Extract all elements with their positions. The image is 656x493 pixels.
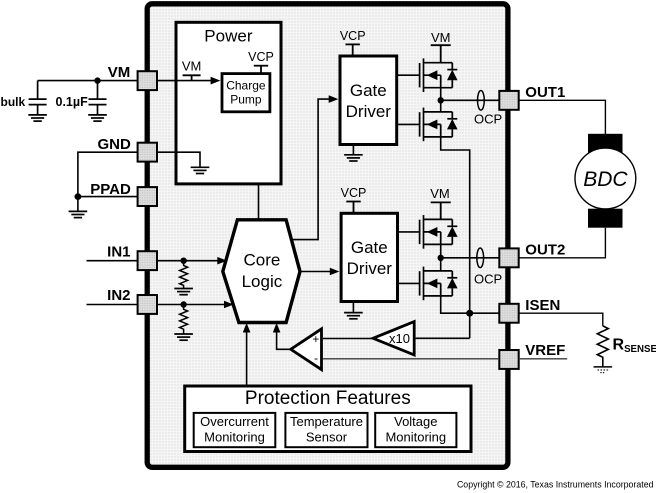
svg-text:BDC: BDC xyxy=(583,168,628,191)
wire VM pin to charge pump xyxy=(157,80,218,82)
transistor Q3 high-side xyxy=(420,215,458,249)
gate driver U2 xyxy=(340,56,397,145)
pin ISEN xyxy=(499,304,518,323)
pin OUT2 xyxy=(499,248,518,267)
arrow protection into core logic xyxy=(243,323,251,333)
arrow comparator into core logic xyxy=(273,323,281,333)
transistor Q4 low-side xyxy=(420,267,458,301)
wire ISEN pin to Rsense xyxy=(519,313,603,326)
ground below bulk xyxy=(28,115,47,121)
svg-text:-: - xyxy=(314,353,318,365)
arrow into gate driver U3 xyxy=(330,268,340,276)
wire core logic to gate driver U2 xyxy=(290,99,336,240)
supply VM over transistor Q3 xyxy=(431,202,451,219)
svg-text:RSENSE: RSENSE xyxy=(613,336,656,355)
svg-text:Temperature: Temperature xyxy=(290,414,363,429)
power block xyxy=(176,22,281,184)
wire IN2 pin to core logic xyxy=(157,304,231,306)
resistor pulldown IN1 xyxy=(180,261,188,289)
svg-text:IN2: IN2 xyxy=(107,287,130,304)
node ISEN junction xyxy=(466,310,473,317)
svg-text:Protection Features: Protection Features xyxy=(245,388,411,409)
transistor Q2 low-side xyxy=(420,108,458,142)
svg-text:Driver: Driver xyxy=(346,102,392,121)
charge pump xyxy=(222,74,270,112)
overcurrent monitoring block xyxy=(194,413,276,447)
svg-text:Core: Core xyxy=(243,251,280,270)
svg-text:Monitoring: Monitoring xyxy=(204,430,265,445)
supply VCP over charge pump xyxy=(254,66,268,74)
voltage monitoring block xyxy=(375,413,456,447)
svg-text:Gate: Gate xyxy=(350,81,387,100)
svg-text:VCP: VCP xyxy=(248,50,274,64)
wire PPAD pin external xyxy=(78,196,138,198)
svg-text:VM: VM xyxy=(182,58,202,73)
wire OUT2 node to pin xyxy=(441,257,500,259)
node PPAD junction xyxy=(75,193,82,200)
svg-text:GND: GND xyxy=(97,136,131,153)
temperature sensor block xyxy=(285,413,367,447)
svg-text:VM: VM xyxy=(430,186,450,201)
wire Q3 source to Q4 drain OUT2 node xyxy=(440,244,442,271)
transistor Q1 high-side xyxy=(420,58,458,92)
pin PPAD xyxy=(138,187,157,206)
motor BDC top terminal xyxy=(588,134,623,153)
supply VCP over gate driver U2 xyxy=(346,44,360,56)
node IN1 junction xyxy=(180,258,186,264)
wire OUT1 pin to motor xyxy=(519,100,606,134)
wire sense rail to x10 input xyxy=(416,337,470,339)
wire motor to OUT2 pin xyxy=(519,228,606,258)
wire VM external xyxy=(38,80,138,82)
wire power block to core logic xyxy=(258,184,260,220)
svg-text:0.1µF: 0.1µF xyxy=(56,95,89,109)
wire VREF to comparator minus xyxy=(323,358,499,360)
wire IN1 external xyxy=(87,260,138,262)
OCP sense ellipse OUT1 xyxy=(478,91,485,111)
wire gate U2 to Q1 xyxy=(398,74,420,76)
node VM junction xyxy=(94,77,100,83)
svg-text:bulk: bulk xyxy=(1,95,26,109)
motor BDC bottom terminal xyxy=(588,209,623,228)
wire Q4 source to ISEN xyxy=(441,296,500,313)
ground below gate driver U3 xyxy=(344,302,363,319)
wire GND pin external xyxy=(78,152,138,196)
wire Q2 source to sense rail xyxy=(441,137,470,338)
pin IN1 xyxy=(138,251,157,270)
svg-text:Charge: Charge xyxy=(226,78,266,92)
wire core logic to gate driver U3 xyxy=(300,271,337,273)
ground internal GND xyxy=(191,167,210,173)
OCP sense ellipse OUT2 xyxy=(477,248,484,268)
supply VM over transistor Q1 xyxy=(431,45,451,63)
svg-text:IN1: IN1 xyxy=(107,244,130,261)
wire IN1 pin to core logic xyxy=(157,260,224,262)
svg-text:Logic: Logic xyxy=(242,272,283,291)
ground below gate driver U2 xyxy=(344,145,363,162)
amplifier x10 xyxy=(373,322,414,355)
IC body U1 xyxy=(147,4,508,468)
gate driver U3 xyxy=(341,213,397,301)
pin VM xyxy=(138,71,157,90)
arrow into charge pump xyxy=(211,77,221,85)
supply VCP over gate driver U3 xyxy=(346,202,360,214)
node OUT1 junction xyxy=(438,97,444,103)
wire comparator output to core logic xyxy=(277,325,291,349)
svg-text:+: + xyxy=(312,334,319,346)
wire gate U3 to Q4 xyxy=(398,282,420,284)
resistor pulldown IN2 xyxy=(180,305,188,335)
svg-text:OCP: OCP xyxy=(474,112,502,127)
arrow IN1 into core logic xyxy=(217,257,227,265)
wire Q1 source to Q2 drain OUT1 node xyxy=(440,88,442,112)
svg-text:ISEN: ISEN xyxy=(525,297,560,314)
supply VM tap in power block xyxy=(183,75,201,80)
wire gate U2 to Q2 xyxy=(398,123,420,125)
svg-text:OUT1: OUT1 xyxy=(525,84,565,101)
svg-text:VM: VM xyxy=(431,30,451,45)
arrow IN2 into core logic xyxy=(224,301,234,309)
pin VREF xyxy=(499,350,518,369)
svg-text:VREF: VREF xyxy=(525,342,565,359)
motor BDC body xyxy=(575,148,636,209)
svg-text:Power: Power xyxy=(204,26,253,45)
node IN2 junction xyxy=(180,301,186,307)
pin OUT1 xyxy=(499,91,518,110)
svg-text:OUT2: OUT2 xyxy=(525,242,565,259)
svg-text:PPAD: PPAD xyxy=(90,181,131,198)
svg-text:OCP: OCP xyxy=(474,271,502,286)
wire IN2 external xyxy=(87,304,138,306)
capacitor bulk xyxy=(29,81,47,115)
core logic block xyxy=(223,220,300,323)
wire protection features to core logic xyxy=(246,325,248,386)
wire x10 output to comparator plus xyxy=(323,338,373,340)
wire VREF external stub xyxy=(519,358,568,360)
svg-text:Monitoring: Monitoring xyxy=(385,430,446,445)
svg-text:Driver: Driver xyxy=(347,259,393,278)
svg-text:Copyright © 2016, Texas Instru: Copyright © 2016, Texas Instruments Inco… xyxy=(457,480,654,490)
svg-text:Voltage: Voltage xyxy=(394,414,437,429)
svg-text:VM: VM xyxy=(108,64,131,81)
svg-text:Gate: Gate xyxy=(351,238,388,257)
protection features block xyxy=(185,386,471,452)
wire gate U3 to Q3 xyxy=(398,231,420,233)
svg-text:Pump: Pump xyxy=(230,93,262,107)
capacitor C1 0.1uF xyxy=(89,81,107,115)
comparator A1 xyxy=(291,329,322,370)
svg-text:Overcurrent: Overcurrent xyxy=(200,414,269,429)
pin GND xyxy=(138,143,157,162)
wire PPAD to ground xyxy=(77,197,79,212)
arrow into gate driver U2 xyxy=(329,95,339,103)
pin IN2 xyxy=(138,295,157,314)
svg-text:VCP: VCP xyxy=(340,29,366,43)
ground below C1 xyxy=(88,115,107,121)
node OUT2 junction xyxy=(438,255,444,261)
ground below Rsense xyxy=(594,367,613,373)
ground below IN1 resistor xyxy=(174,289,193,295)
ground below IN2 resistor xyxy=(174,334,193,340)
svg-text:VCP: VCP xyxy=(341,186,367,200)
wire GND pin to internal ground xyxy=(157,152,200,167)
resistor Rsense xyxy=(597,326,608,367)
ground below PPAD xyxy=(69,211,88,217)
svg-text:x10: x10 xyxy=(389,331,410,346)
svg-text:Sensor: Sensor xyxy=(306,430,348,445)
wire OUT1 node to pin xyxy=(441,99,500,101)
